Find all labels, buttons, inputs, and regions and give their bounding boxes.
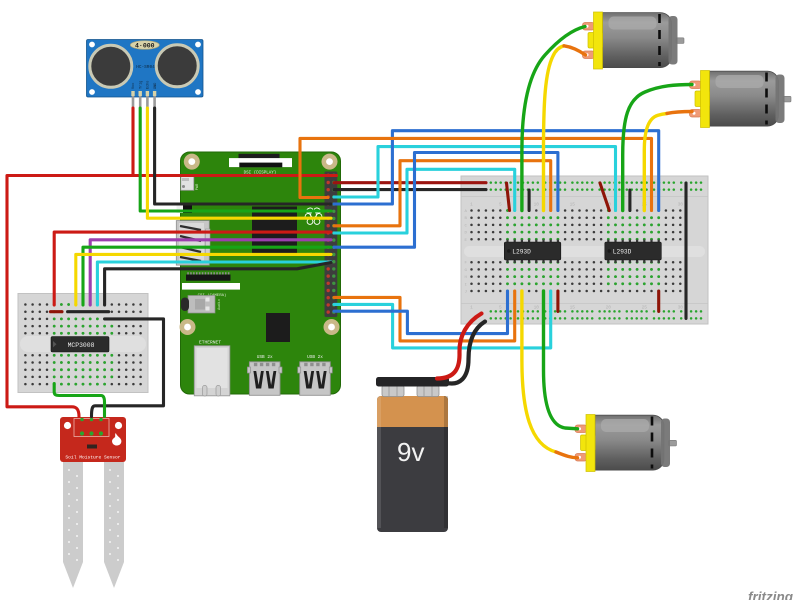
GPIO header J8 [325,172,338,318]
HDMI connector [176,221,210,266]
svg-text:L293D: L293D [512,249,531,256]
wire black: battery - to BB2 bottom rail [445,322,485,384]
wire cyan: GPIO to L293D #1 row J [334,291,551,348]
svg-text:10: 10 [534,305,540,311]
svg-text:5: 5 [499,305,502,311]
wire blue: GPIO to L293D #1 row J [334,291,508,334]
svg-text:Vcc: Vcc [132,83,136,89]
USB ports 2x [247,355,282,396]
Raspberry Pi board [180,152,341,394]
svg-text:4·000: 4·000 [135,42,155,49]
wire orange tip: yellow wire into motor M3 - [556,452,578,458]
wire yellow: BB2 to motor M2 - [644,114,667,211]
svg-text:1: 1 [470,202,473,208]
wire green: BB2 to motor M1 + [522,27,585,211]
svg-text:USB 2x: USB 2x [257,355,273,360]
svg-text:15: 15 [570,202,576,208]
wire red jumper: BB2 + rail to row A col6 [507,183,510,211]
wire purple: BB1 MCP3008 DOUT to GPIO [90,240,331,305]
micro-USB power connector [181,177,200,191]
breadboard BB2 (full-size breadboard) [461,176,708,324]
motor M3 (DC motor) [575,415,677,472]
svg-text:J: J [465,291,467,295]
SoC chip on Pi [252,207,297,254]
svg-text:10: 10 [534,202,540,208]
wire red 5V: sensor/Pi 5V rail to soil sensor VCC [7,176,337,417]
camera (CSI) connector [182,272,240,298]
small component near left edge [177,206,193,214]
IC U1 MCP3008 [51,337,109,353]
wire orange: GPIO to L293D #1 row J [334,291,515,341]
wire red jumper: row J col13 to bottom + rail [556,291,559,311]
wire cyan: BB1 MCP3008 CS to GPIO [97,262,331,305]
wire green: BB1 MCP3008 DIN to GPIO [83,247,331,305]
wire orange: GPIO to L293D #2 enable [300,138,652,210]
wire yellow: BB2 to motor M1 - [544,46,565,211]
svg-text:GND: GND [154,83,158,89]
wire black jumper: BB2 - rail to row A col23 [628,190,631,211]
wire red: ultrasonic Vcc down to 5V line [131,108,134,176]
svg-text:L293D: L293D [613,249,632,256]
svg-text:USB 2x: USB 2x [307,355,323,360]
ultrasonic sensor HC-SR04 [87,40,204,110]
svg-text:30: 30 [678,202,684,208]
svg-text:1: 1 [470,305,473,311]
svg-text:MCP3008: MCP3008 [68,342,95,349]
ethernet port [194,340,230,397]
wire black jumper on BB1 row 2 [68,310,109,313]
motor M1 (DC motor) [583,12,685,69]
svg-text:9v: 9v [397,437,424,467]
svg-text:15: 15 [570,305,576,311]
wire green: BB1 to soil sensor SIG [54,384,104,417]
svg-text:fritzing: fritzing [748,590,794,600]
motor M2 (DC motor) [690,71,792,128]
svg-text:HC-SR04: HC-SR04 [136,65,155,70]
wire red: BB1 to GPIO 3V3 [54,232,331,305]
wire red: battery + to BB2 bottom rail [437,314,482,379]
wire blue: GPIO to L293D #2 input [334,131,659,211]
wire black jumper: BB2 - rail to row A col9 [528,190,531,211]
wire black: GPIO GND to BB2 - rail [334,188,486,191]
svg-text:20: 20 [606,305,612,311]
wire black: BB1 to soil sensor GND [92,319,164,417]
wire red jumper: BB2 + rail to row A col20 [600,183,609,211]
display (DSI) connector on Pi [229,154,292,176]
svg-text:Audio: Audio [217,299,222,310]
svg-text:5: 5 [499,202,502,208]
wire yellow: BB1 MCP3008 CLK to GPIO [76,254,331,305]
battery BT1 9V [376,377,449,532]
wire cyan: GPIO to L293D #1 input [334,169,515,233]
Raspberry Pi logo [305,207,322,224]
wire green: BB2 to motor M3 + [544,291,578,429]
svg-text:Soil Moisture Sensor: Soil Moisture Sensor [65,455,120,461]
wire yellow: BB2 to motor M3 - [522,291,556,452]
svg-text:30: 30 [678,305,684,311]
wire blue: GPIO to L293D #1 input [334,153,558,248]
secondary chip on Pi [266,313,290,342]
wire green: ultrasonic Trig to GPIO [140,108,331,211]
breadboard BB1 (left mini breadboard) [18,294,148,393]
svg-text:I: I [465,283,467,287]
wire green: BB2 to motor M2 + [623,85,692,211]
wire orange tip: yellow wire into motor M2 - [667,112,692,114]
svg-text:PWR: PWR [196,183,200,190]
wire black jumper: BB2 top rail to bottom rail [684,183,687,318]
audio jack [181,296,222,314]
wire red jumper on BB1 row 2 [51,310,63,313]
wire black: BB1 ground to GPIO [105,263,331,306]
svg-text:ETHERNET: ETHERNET [199,340,221,346]
soil moisture sensor [60,417,126,588]
wire orange: GPIO to L293D #1 enable [334,161,551,226]
svg-text:Trig: Trig [138,81,143,89]
wire yellow: ultrasonic Echo to GPIO [147,108,331,218]
svg-text:25: 25 [642,305,648,311]
wire orange tip: yellow wire into motor M1 - [564,46,586,55]
wire black: ultrasonic GND to GPIO [155,108,331,204]
wire red jumper: row J col27 to bottom + rail [657,291,660,311]
wire dark red: GPIO 5V to BB2 + rail [334,181,486,184]
wire cyan: GPIO to L293D #2 input [334,147,616,211]
svg-text:Echo: Echo [146,81,151,89]
